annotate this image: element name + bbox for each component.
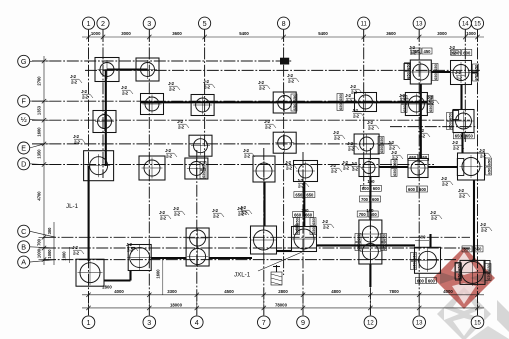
svg-text:2-2: 2-2 bbox=[286, 165, 292, 170]
vertical value box bbox=[405, 62, 411, 79]
footing F19 bbox=[294, 161, 318, 182]
beam segment 15 bbox=[369, 177, 371, 221]
svg-text:J-2: J-2 bbox=[388, 140, 394, 145]
beam segment 5 bbox=[420, 84, 422, 158]
svg-text:2-2: 2-2 bbox=[166, 153, 172, 158]
svg-text:J-2: J-2 bbox=[351, 161, 357, 166]
svg-text:2: 2 bbox=[101, 19, 105, 28]
svg-text:650: 650 bbox=[448, 121, 453, 128]
label flag 34 bbox=[322, 219, 334, 229]
label flag 39 bbox=[479, 148, 491, 158]
svg-text:650: 650 bbox=[379, 145, 384, 152]
footing F4 bbox=[451, 61, 472, 85]
left dimension line bbox=[43, 56, 45, 265]
svg-text:J-2: J-2 bbox=[203, 79, 209, 84]
footing F27 bbox=[292, 227, 317, 252]
svg-text:2-2: 2-2 bbox=[74, 139, 80, 144]
svg-text:B: B bbox=[21, 242, 26, 251]
svg-text:J-2: J-2 bbox=[173, 206, 179, 211]
beam segment 18 bbox=[151, 257, 186, 259]
footing F17 bbox=[185, 158, 208, 179]
svg-text:J-2: J-2 bbox=[342, 160, 348, 165]
svg-text:J-2: J-2 bbox=[367, 120, 373, 125]
svg-text:1600: 1600 bbox=[37, 127, 42, 137]
beam segment 1 bbox=[107, 68, 148, 70]
footing F18 bbox=[253, 156, 275, 182]
svg-text:2-2: 2-2 bbox=[73, 250, 79, 255]
watermark logo bbox=[433, 247, 509, 339]
grid line 4 vertical bbox=[196, 150, 198, 315]
svg-text:2-2: 2-2 bbox=[346, 98, 352, 103]
svg-text:100: 100 bbox=[301, 208, 309, 213]
label flag 3 bbox=[121, 85, 133, 95]
axis bubble 11 top bbox=[358, 17, 370, 29]
svg-text:F: F bbox=[22, 97, 27, 106]
svg-text:2-2: 2-2 bbox=[122, 90, 128, 95]
beam segment 22 bbox=[429, 234, 431, 247]
svg-text:650: 650 bbox=[406, 71, 411, 78]
svg-text:1353: 1353 bbox=[37, 105, 42, 115]
svg-text:600: 600 bbox=[417, 278, 425, 283]
svg-text:2-2: 2-2 bbox=[174, 211, 180, 216]
pedestal rect bbox=[457, 159, 464, 176]
beam segment 4 bbox=[141, 101, 428, 103]
svg-text:650: 650 bbox=[412, 261, 417, 268]
pedestal rect bbox=[453, 111, 459, 120]
svg-text:E: E bbox=[21, 144, 26, 153]
svg-text:2-2: 2-2 bbox=[456, 75, 462, 80]
label flag 32 bbox=[480, 222, 492, 232]
svg-text:2-2: 2-2 bbox=[169, 86, 175, 91]
svg-text:11: 11 bbox=[361, 21, 368, 27]
beam segment 23 bbox=[369, 264, 371, 287]
label flag 24 bbox=[159, 210, 171, 220]
svg-text:2-2: 2-2 bbox=[160, 215, 166, 220]
svg-text:5400: 5400 bbox=[318, 31, 328, 36]
svg-text:600: 600 bbox=[295, 223, 300, 231]
footing F20 bbox=[359, 159, 379, 177]
svg-text:J-2: J-2 bbox=[70, 74, 76, 79]
vertical value box bbox=[294, 217, 300, 234]
label flag 27 bbox=[72, 245, 84, 255]
svg-text:4: 4 bbox=[195, 318, 199, 327]
svg-text:2800: 2800 bbox=[102, 284, 112, 289]
svg-text:650: 650 bbox=[420, 155, 428, 160]
svg-text:650: 650 bbox=[412, 252, 417, 259]
vertical value box bbox=[355, 233, 361, 250]
label flag 21 bbox=[342, 160, 354, 170]
svg-text:2-2: 2-2 bbox=[419, 133, 425, 138]
grid line 8 vertical bbox=[283, 30, 285, 275]
svg-text:18000: 18000 bbox=[170, 302, 183, 307]
label flag 12 bbox=[237, 206, 249, 216]
svg-text:2800: 2800 bbox=[278, 289, 288, 294]
label flag 18 bbox=[352, 108, 364, 118]
svg-text:650: 650 bbox=[306, 192, 314, 197]
svg-text:2-2: 2-2 bbox=[453, 145, 459, 150]
svg-text:1: 1 bbox=[87, 19, 91, 28]
beam segment 12 bbox=[473, 180, 475, 261]
svg-text:650: 650 bbox=[433, 72, 438, 79]
svg-text:4500: 4500 bbox=[224, 289, 234, 294]
svg-text:4700: 4700 bbox=[37, 191, 42, 201]
svg-text:J-2: J-2 bbox=[81, 89, 87, 94]
vertical value box bbox=[456, 263, 462, 280]
value boxes bbox=[453, 133, 474, 139]
svg-text:7800: 7800 bbox=[389, 289, 399, 294]
svg-text:J-2: J-2 bbox=[168, 81, 174, 86]
svg-text:650: 650 bbox=[455, 134, 463, 139]
footing F21 bbox=[408, 159, 428, 178]
svg-text:650: 650 bbox=[338, 93, 343, 100]
svg-text:650: 650 bbox=[486, 272, 491, 279]
beam segment 3 bbox=[88, 166, 90, 261]
label flag 17 bbox=[409, 45, 421, 55]
svg-text:2-2: 2-2 bbox=[353, 113, 359, 118]
svg-text:650: 650 bbox=[409, 155, 417, 160]
svg-text:15: 15 bbox=[474, 21, 481, 27]
label flag 26 bbox=[240, 205, 252, 215]
svg-text:J-2: J-2 bbox=[347, 141, 353, 146]
svg-text:13: 13 bbox=[416, 21, 423, 27]
svg-text:4800: 4800 bbox=[331, 289, 341, 294]
footing F10 bbox=[93, 111, 116, 133]
svg-text:650: 650 bbox=[428, 95, 433, 102]
svg-text:650: 650 bbox=[292, 103, 297, 110]
svg-text:J-2: J-2 bbox=[350, 84, 356, 89]
axis bubble D left bbox=[30, 163, 45, 166]
svg-text:2700: 2700 bbox=[37, 76, 42, 86]
svg-text:650: 650 bbox=[201, 161, 206, 168]
label flag 43 bbox=[258, 80, 270, 90]
label flag 29 bbox=[285, 160, 297, 170]
value boxes bbox=[451, 50, 472, 56]
svg-text:650: 650 bbox=[428, 104, 433, 111]
label flag 13 bbox=[287, 73, 299, 83]
svg-text:650: 650 bbox=[201, 170, 206, 177]
grid line E bbox=[32, 143, 392, 145]
footing F11 bbox=[453, 110, 474, 133]
label flag 22 bbox=[388, 140, 400, 150]
svg-text:650: 650 bbox=[311, 226, 316, 233]
svg-text:J-2: J-2 bbox=[333, 130, 339, 135]
footing F22 bbox=[458, 153, 485, 180]
beam segment 7 bbox=[472, 71, 478, 73]
svg-text:3: 3 bbox=[147, 318, 151, 327]
svg-text:2-2: 2-2 bbox=[351, 89, 357, 94]
label flag 6 bbox=[73, 134, 85, 144]
svg-text:1350: 1350 bbox=[37, 149, 42, 159]
grid line 9 vertical bbox=[302, 152, 304, 315]
svg-text:G: G bbox=[21, 57, 27, 66]
svg-text:1600: 1600 bbox=[156, 269, 161, 279]
beam segment 13 bbox=[263, 182, 265, 227]
svg-text:2-2: 2-2 bbox=[323, 224, 329, 229]
grid line 7 vertical bbox=[263, 148, 265, 315]
svg-text:2-2: 2-2 bbox=[331, 168, 337, 173]
svg-text:2-2: 2-2 bbox=[213, 213, 219, 218]
label flag 45 bbox=[351, 161, 363, 171]
svg-text:2-2: 2-2 bbox=[334, 135, 340, 140]
svg-text:3000: 3000 bbox=[437, 31, 447, 36]
grid line 13 vertical bbox=[418, 30, 420, 315]
grid line 11 vertical bbox=[363, 30, 365, 188]
svg-text:J-2: J-2 bbox=[391, 150, 397, 155]
beam segment 21 bbox=[317, 244, 416, 246]
svg-text:5400: 5400 bbox=[239, 31, 249, 36]
svg-text:650: 650 bbox=[292, 94, 297, 101]
footing F16 bbox=[139, 156, 165, 180]
svg-text:J-2: J-2 bbox=[72, 245, 78, 250]
beam segment 16 bbox=[104, 279, 131, 281]
label flag 7 bbox=[165, 148, 177, 158]
svg-text:J-2: J-2 bbox=[455, 70, 461, 75]
svg-text:650: 650 bbox=[486, 263, 491, 270]
svg-text:2-2: 2-2 bbox=[480, 153, 486, 158]
svg-text:650: 650 bbox=[392, 159, 397, 166]
svg-text:2-2: 2-2 bbox=[244, 153, 250, 158]
svg-text:2-2: 2-2 bbox=[298, 183, 304, 188]
value boxes bbox=[415, 278, 436, 284]
beam segment 17 bbox=[129, 270, 131, 281]
label flag 30 bbox=[330, 163, 342, 173]
pedestal rect bbox=[455, 263, 461, 280]
footing F6 bbox=[191, 95, 214, 116]
svg-text:600: 600 bbox=[372, 197, 380, 202]
pedestal rect bbox=[404, 64, 410, 80]
svg-text:1000: 1000 bbox=[47, 249, 52, 259]
label flag 35 bbox=[345, 93, 357, 103]
vertical value box bbox=[485, 263, 491, 280]
footing F7 bbox=[273, 92, 296, 113]
svg-text:2-2: 2-2 bbox=[82, 94, 88, 99]
label flag 42 bbox=[367, 120, 379, 130]
footing F1 bbox=[95, 58, 119, 82]
svg-text:1000: 1000 bbox=[37, 248, 42, 258]
svg-text:650: 650 bbox=[406, 62, 411, 69]
label flag 20 bbox=[427, 95, 439, 105]
svg-text:2-2: 2-2 bbox=[241, 210, 247, 215]
label flag 19 bbox=[399, 93, 411, 103]
svg-text:300: 300 bbox=[47, 227, 52, 235]
vertical value box bbox=[401, 95, 407, 112]
beam segment 11 bbox=[428, 166, 458, 168]
vertical value box bbox=[411, 252, 417, 269]
grid line 5 vertical bbox=[204, 30, 206, 165]
beam segment 9 bbox=[461, 132, 463, 154]
svg-text:2-2: 2-2 bbox=[288, 78, 294, 83]
footing F24 bbox=[127, 245, 152, 271]
footing F12 bbox=[189, 135, 212, 156]
label flag 44 bbox=[347, 141, 359, 151]
svg-text:J-2: J-2 bbox=[345, 93, 351, 98]
label flag 5 bbox=[203, 79, 215, 89]
axis bubble 8 top bbox=[278, 17, 290, 29]
vertical value box bbox=[486, 158, 492, 175]
axis bubble E left bbox=[30, 144, 45, 148]
svg-text:2-2: 2-2 bbox=[127, 247, 133, 252]
footing F14 bbox=[354, 134, 379, 154]
svg-text:J-2: J-2 bbox=[121, 85, 127, 90]
vertical value box bbox=[310, 217, 316, 234]
footing F2 bbox=[136, 58, 159, 81]
svg-text:650: 650 bbox=[474, 64, 479, 71]
svg-text:600: 600 bbox=[373, 186, 381, 191]
svg-text:9: 9 bbox=[301, 318, 305, 327]
svg-text:100: 100 bbox=[366, 208, 374, 213]
svg-text:J-2: J-2 bbox=[479, 148, 485, 153]
axis bubble 4 bottom bbox=[191, 316, 204, 329]
axis bubble 3 top bbox=[143, 17, 155, 29]
svg-text:78000: 78000 bbox=[275, 302, 288, 307]
grid line B bbox=[44, 247, 470, 249]
svg-text:J-2: J-2 bbox=[126, 242, 132, 247]
grid line 1/G partial bbox=[85, 69, 481, 71]
svg-text:JL-1: JL-1 bbox=[66, 203, 79, 210]
footing F29 bbox=[415, 247, 441, 273]
axis bubble 5 top bbox=[199, 17, 211, 29]
vertical value box bbox=[381, 233, 387, 250]
svg-text:J-2: J-2 bbox=[73, 134, 79, 139]
vertical value box bbox=[473, 64, 479, 81]
svg-text:15: 15 bbox=[474, 320, 481, 326]
svg-text:650: 650 bbox=[382, 242, 387, 249]
grid line 3 vertical bbox=[148, 30, 150, 315]
svg-text:660: 660 bbox=[305, 212, 313, 217]
beam segment 6 bbox=[432, 71, 451, 73]
value boxes bbox=[407, 186, 428, 192]
svg-text:14: 14 bbox=[462, 21, 469, 27]
svg-text:600: 600 bbox=[418, 235, 426, 240]
vertical value box bbox=[200, 161, 206, 178]
axis bubble A left bbox=[30, 260, 57, 263]
svg-text:660: 660 bbox=[294, 212, 302, 217]
svg-text:650: 650 bbox=[474, 73, 479, 80]
axis bubble 12 bottom bbox=[364, 316, 377, 329]
svg-text:3300: 3300 bbox=[167, 289, 177, 294]
svg-text:2-2: 2-2 bbox=[368, 125, 374, 130]
grid line 1/E bbox=[32, 119, 470, 121]
svg-text:650: 650 bbox=[475, 247, 483, 252]
svg-text:650: 650 bbox=[379, 136, 384, 143]
svg-text:450: 450 bbox=[424, 49, 432, 54]
axis bubble 1 bottom bbox=[82, 316, 95, 329]
svg-text:650: 650 bbox=[392, 168, 397, 175]
svg-text:2-2: 2-2 bbox=[348, 146, 354, 151]
vertical value box bbox=[447, 112, 453, 129]
axis bubble 15 top bbox=[471, 17, 483, 29]
label flag 33 bbox=[430, 210, 442, 220]
svg-text:650: 650 bbox=[338, 102, 343, 109]
bottom dimension lines bbox=[82, 294, 484, 296]
vertical value box bbox=[432, 63, 438, 80]
svg-text:12: 12 bbox=[367, 320, 374, 326]
label flag 2 bbox=[81, 89, 93, 99]
label flag 11 bbox=[173, 206, 185, 216]
svg-text:600: 600 bbox=[428, 278, 436, 283]
beam segment 2 bbox=[105, 70, 107, 166]
value boxes bbox=[411, 48, 432, 54]
axis bubble 7 bottom bbox=[258, 316, 271, 329]
axis bubble F left bbox=[30, 100, 45, 102]
label flag 14 bbox=[350, 84, 362, 94]
svg-text:JXL-1: JXL-1 bbox=[234, 272, 251, 279]
value boxes bbox=[357, 211, 378, 217]
svg-text:J-2: J-2 bbox=[480, 222, 486, 227]
label flag 8 bbox=[177, 119, 189, 129]
label flag 16 bbox=[449, 45, 461, 55]
svg-text:650: 650 bbox=[382, 233, 387, 240]
svg-text:J-2: J-2 bbox=[287, 73, 293, 78]
vertical value box bbox=[391, 159, 397, 176]
grid line 1 vertical bbox=[88, 30, 90, 315]
svg-text:2-2: 2-2 bbox=[442, 181, 448, 186]
svg-text:600: 600 bbox=[452, 50, 460, 55]
grid line 14 vertical bbox=[464, 30, 466, 142]
grid line A bbox=[44, 259, 456, 261]
svg-text:650: 650 bbox=[311, 217, 316, 224]
axis bubble 15 bottom bbox=[471, 316, 484, 329]
svg-text:4000: 4000 bbox=[114, 289, 124, 294]
footing F15 bbox=[84, 151, 114, 181]
label flag 1 bbox=[70, 74, 82, 84]
footing F9 bbox=[405, 93, 427, 116]
svg-text:J-2: J-2 bbox=[212, 208, 218, 213]
axis bubble 1/E left bbox=[30, 119, 45, 122]
axis bubble 9 bottom bbox=[297, 316, 310, 329]
axis bubble C left bbox=[30, 231, 57, 237]
beam segment 8 bbox=[460, 84, 462, 110]
label flag 4 bbox=[168, 81, 180, 91]
footing F13 bbox=[273, 132, 296, 153]
svg-text:2-2: 2-2 bbox=[259, 85, 265, 90]
svg-text:J-2: J-2 bbox=[258, 80, 264, 85]
svg-text:450: 450 bbox=[413, 49, 421, 54]
svg-text:J-2: J-2 bbox=[430, 210, 436, 215]
svg-text:650: 650 bbox=[457, 263, 462, 270]
svg-text:2-2: 2-2 bbox=[71, 79, 77, 84]
svg-text:½: ½ bbox=[21, 115, 27, 124]
svg-text:1000: 1000 bbox=[91, 31, 101, 36]
svg-text:J-2: J-2 bbox=[177, 119, 183, 124]
grid line 2 vertical bbox=[102, 30, 104, 178]
axis bubble B left bbox=[30, 247, 57, 248]
axis bubble 3 bottom bbox=[143, 316, 156, 329]
label flag 25 bbox=[212, 208, 224, 218]
hatched detail symbol J-1 bbox=[271, 265, 282, 285]
axis bubble G left bbox=[30, 60, 45, 62]
axis bubble 1 top bbox=[82, 17, 94, 29]
grid line F bbox=[32, 100, 432, 102]
label flag 23 bbox=[452, 140, 464, 150]
svg-text:650: 650 bbox=[433, 63, 438, 70]
svg-text:650: 650 bbox=[457, 272, 462, 279]
svg-text:J-2: J-2 bbox=[159, 210, 165, 215]
beam segment 19 bbox=[209, 257, 252, 259]
svg-text:650: 650 bbox=[356, 242, 361, 249]
label flag 41 bbox=[418, 128, 430, 138]
svg-text:850: 850 bbox=[464, 247, 472, 252]
axis bubble 13 bottom bbox=[413, 316, 426, 329]
svg-text:J-2: J-2 bbox=[165, 148, 171, 153]
svg-text:8: 8 bbox=[282, 19, 286, 28]
svg-text:600: 600 bbox=[408, 187, 416, 192]
svg-text:650: 650 bbox=[466, 134, 474, 139]
svg-text:700: 700 bbox=[361, 197, 369, 202]
beam segment 10 bbox=[379, 166, 408, 168]
label flag 38 bbox=[441, 176, 453, 186]
svg-text:J-2: J-2 bbox=[452, 140, 458, 145]
